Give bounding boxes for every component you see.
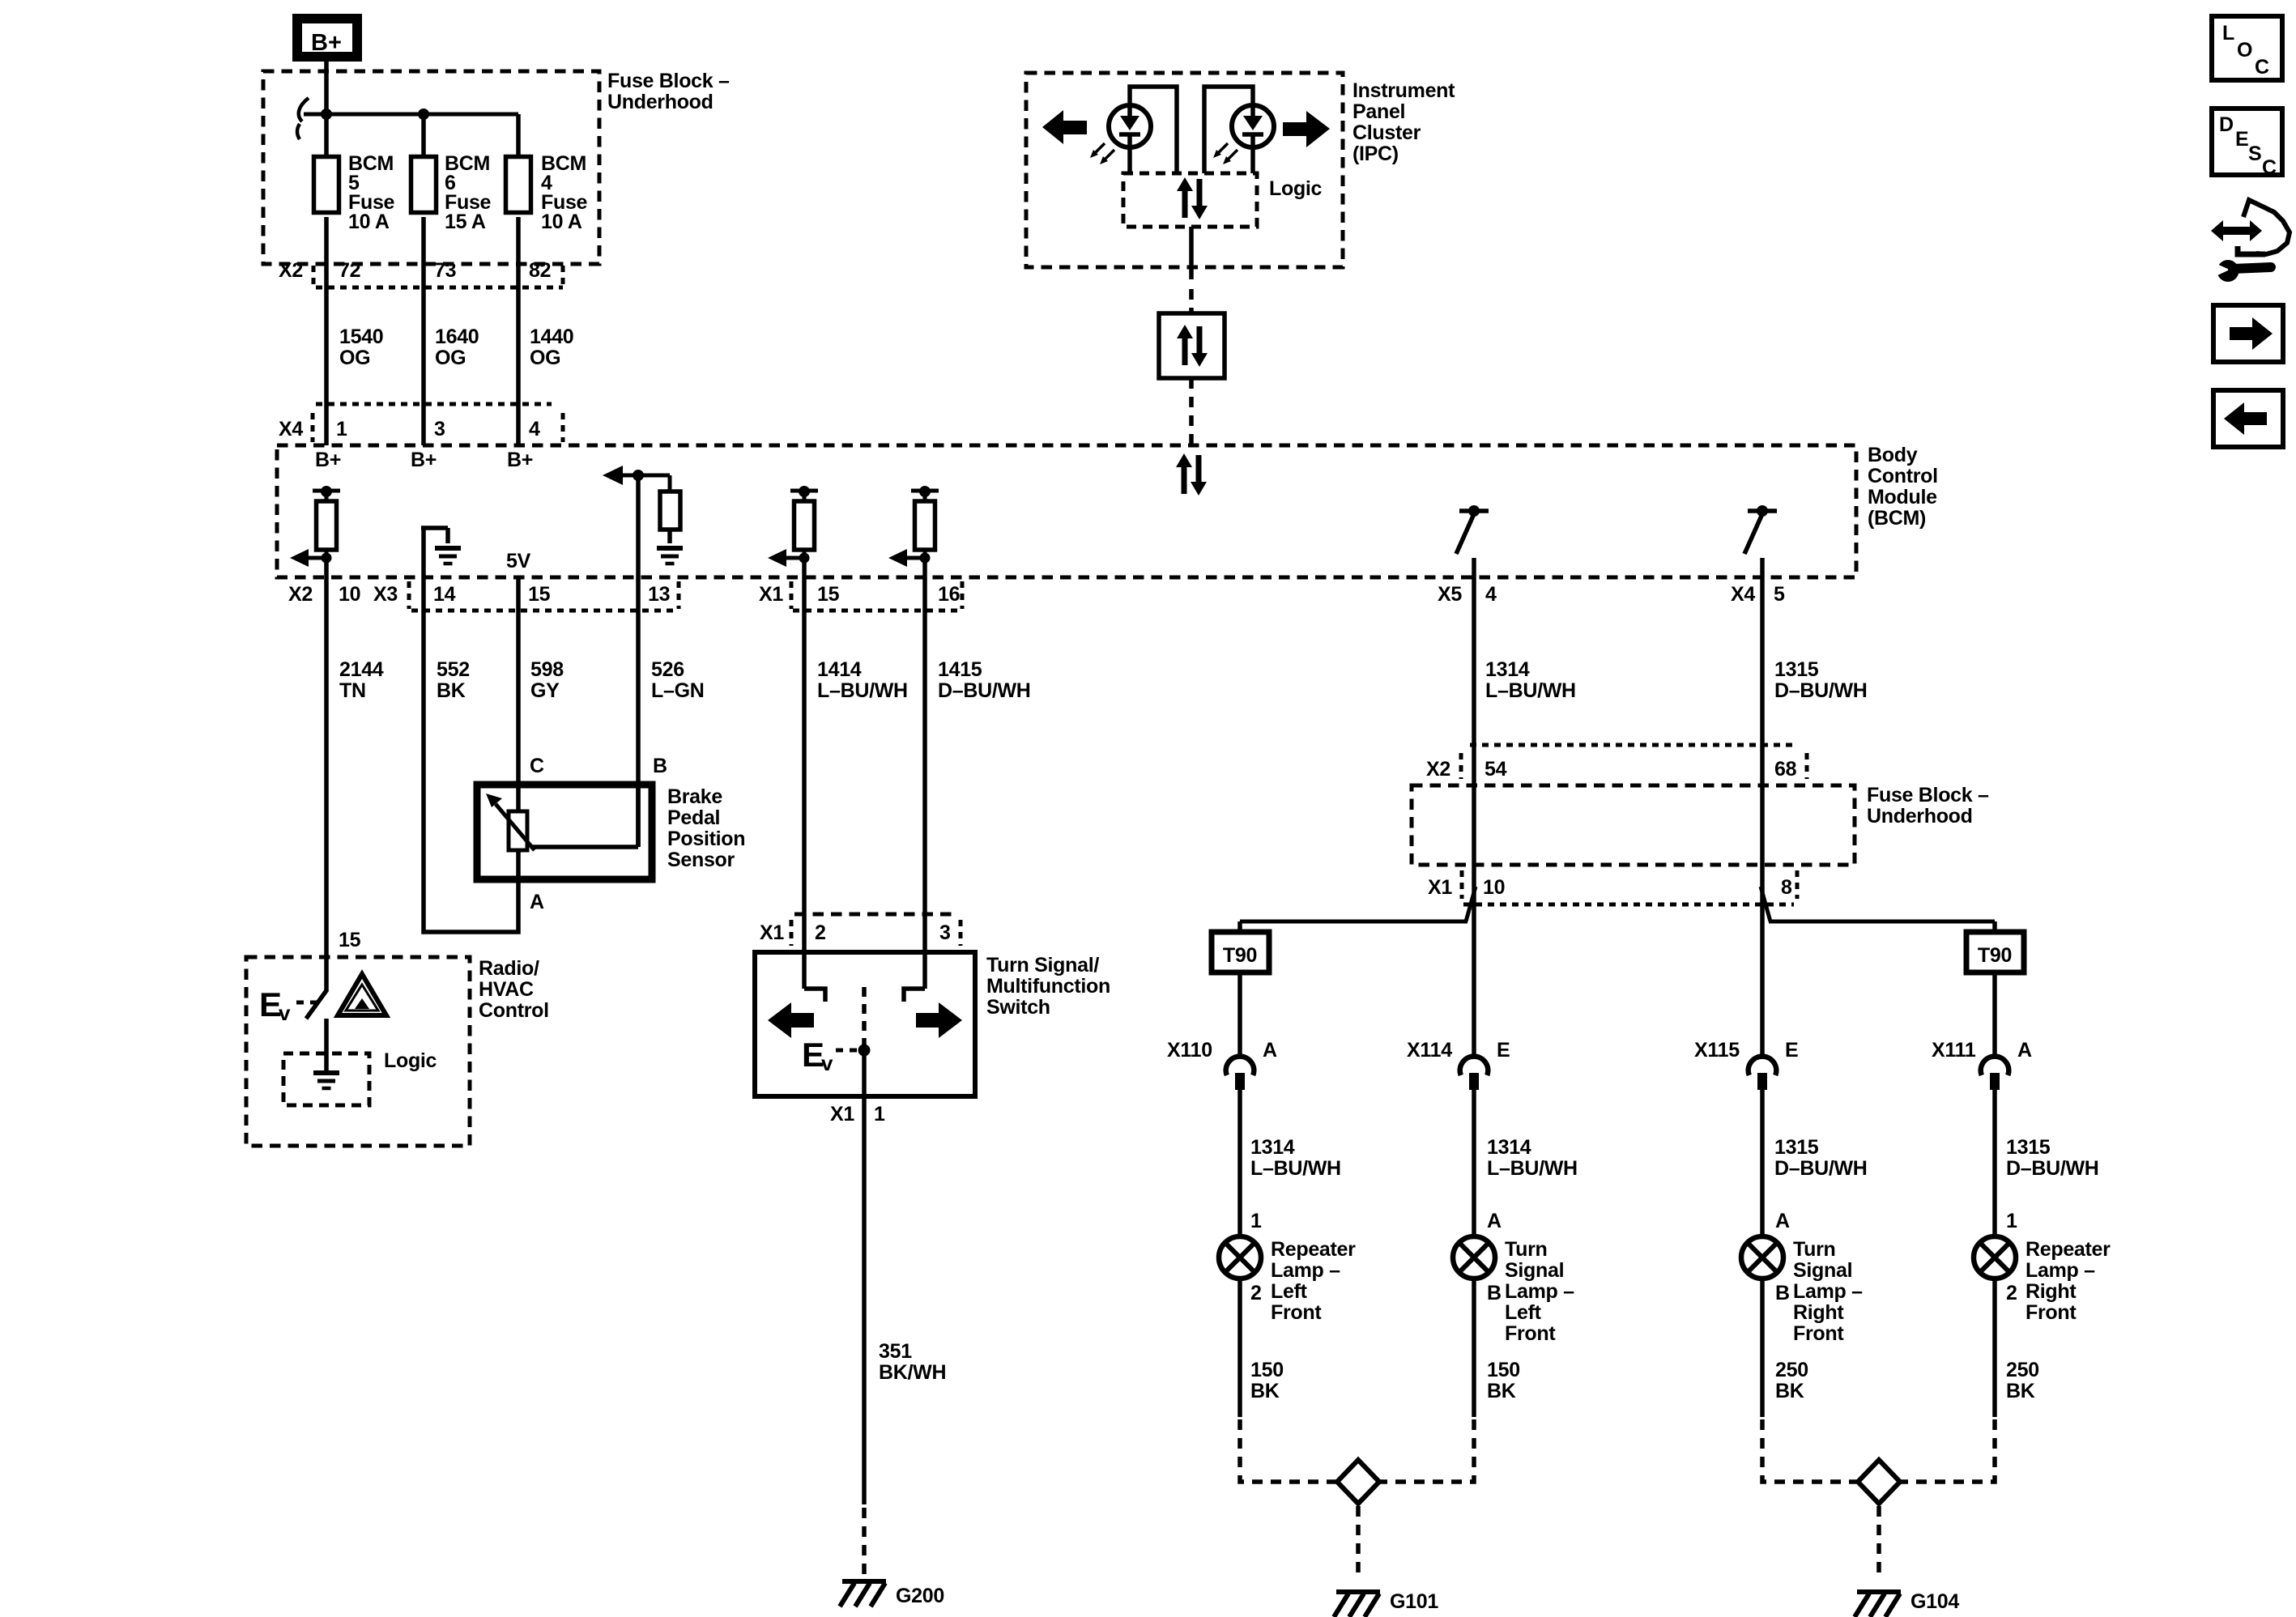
- svg-text:68: 68: [1774, 758, 1797, 781]
- svg-text:v: v: [279, 1001, 291, 1025]
- wire to logic ground radio: [324, 1019, 329, 1070]
- svg-text:X4: X4: [1731, 583, 1755, 606]
- svg-text:B+: B+: [411, 449, 437, 471]
- svg-text:E: E: [2235, 128, 2248, 151]
- lamp turn signal right front: [1741, 1236, 1783, 1279]
- wire 150 BK left: [1237, 1279, 1242, 1417]
- svg-text:1640: 1640: [435, 326, 479, 348]
- svg-text:(IPC): (IPC): [1352, 143, 1399, 165]
- icon box left arrow: [2213, 390, 2283, 447]
- svg-text:Instrument: Instrument: [1352, 79, 1455, 102]
- svg-text:150: 150: [1487, 1359, 1520, 1381]
- fuse block underhood 2 dashed box: [1412, 785, 1855, 865]
- svg-text:A: A: [530, 891, 544, 913]
- svg-text:OG: OG: [530, 347, 560, 369]
- svg-text:D–BU/WH: D–BU/WH: [1774, 679, 1868, 702]
- svg-text:A: A: [1775, 1210, 1790, 1232]
- svg-text:D–BU/WH: D–BU/WH: [1774, 1157, 1868, 1180]
- svg-text:BK: BK: [2006, 1380, 2035, 1402]
- svg-text:Underhood: Underhood: [607, 91, 714, 113]
- resistor internal BCM on 2144 output: [290, 486, 340, 567]
- connector X110: [1226, 1057, 1254, 1090]
- splice diamond left: [1337, 1460, 1379, 1504]
- icon hand wrench: [2211, 200, 2290, 282]
- svg-text:Fuse Block –: Fuse Block –: [607, 70, 730, 92]
- svg-text:150: 150: [1250, 1359, 1284, 1381]
- wire 1314 from BCM X5-4: [1472, 577, 1476, 1058]
- svg-text:15: 15: [339, 929, 361, 951]
- Ev symbol switch with dashed link and node: [802, 987, 871, 1075]
- svg-text:15: 15: [528, 583, 551, 606]
- svg-text:Lamp –: Lamp –: [1793, 1280, 1863, 1303]
- svg-text:Sensor: Sensor: [667, 849, 735, 871]
- internal ground BCM X3-14: [421, 528, 461, 577]
- svg-text:BK: BK: [1487, 1380, 1516, 1402]
- instrument panel cluster dashed box: [1026, 73, 1343, 267]
- branch wire to right T90: [1769, 920, 1995, 924]
- svg-text:2: 2: [815, 921, 826, 944]
- svg-text:351: 351: [879, 1340, 912, 1363]
- svg-text:BK: BK: [437, 679, 466, 702]
- connector row X2 54 68 fuse block: [1426, 745, 1807, 781]
- svg-text:C: C: [2262, 156, 2277, 179]
- svg-text:Right: Right: [2026, 1280, 2077, 1303]
- svg-text:BK/WH: BK/WH: [879, 1361, 946, 1384]
- logic dashed box radio: [283, 1053, 369, 1105]
- wire X110 to lamp: [1237, 1090, 1242, 1236]
- svg-text:X2: X2: [279, 259, 303, 282]
- big left turn arrow IPC: [1042, 110, 1087, 144]
- svg-text:Control: Control: [479, 999, 549, 1022]
- svg-text:2: 2: [2006, 1282, 2017, 1304]
- lamp repeater right front: [1974, 1236, 2016, 1279]
- svg-text:10: 10: [1483, 876, 1505, 899]
- svg-text:Front: Front: [1505, 1322, 1556, 1345]
- svg-text:X1: X1: [760, 921, 784, 944]
- svg-text:GY: GY: [530, 679, 560, 702]
- svg-text:L: L: [2222, 22, 2234, 45]
- radio HVAC control dashed box: [246, 957, 470, 1146]
- lamp repeater left front: [1219, 1236, 1261, 1279]
- wire 150 BK mid: [1472, 1279, 1476, 1417]
- svg-text:250: 250: [1775, 1359, 1808, 1381]
- wire fuse3 to BCM: [516, 217, 521, 445]
- dashed drop to G101: [1356, 1506, 1361, 1575]
- kink junction right branch: [1761, 887, 1770, 921]
- Ev symbol radio: [259, 985, 317, 1025]
- connector row X2-10 X3-14 15 13 X1-15 16 below BCM: [288, 581, 962, 611]
- svg-text:1: 1: [336, 418, 347, 440]
- junction node dot: [321, 109, 332, 120]
- wire 526 inside BCM: [636, 475, 641, 577]
- svg-text:54: 54: [1485, 758, 1507, 781]
- svg-text:A: A: [1487, 1210, 1502, 1232]
- svg-text:Repeater: Repeater: [1271, 1238, 1356, 1261]
- svg-text:C: C: [530, 755, 544, 777]
- branch wire to left T90: [1240, 920, 1467, 924]
- svg-text:1440: 1440: [530, 326, 573, 348]
- big right turn arrow IPC: [1283, 111, 1330, 147]
- turn signal multifunction switch box: [755, 952, 975, 1096]
- svg-text:10: 10: [339, 583, 360, 606]
- svg-text:Multifunction: Multifunction: [986, 975, 1110, 998]
- wire X110 branch upper: [1237, 972, 1242, 1058]
- svg-text:1314: 1314: [1485, 658, 1530, 681]
- svg-text:TN: TN: [339, 679, 366, 702]
- svg-text:X2: X2: [1426, 758, 1450, 781]
- svg-text:8: 8: [1781, 876, 1792, 899]
- svg-text:X2: X2: [288, 583, 313, 606]
- up down arrows inside IPC logic: [1177, 177, 1208, 219]
- wire 526 L-GN: [636, 577, 641, 847]
- hazard switch blade inside radio: [306, 989, 327, 1019]
- ground G104: [1855, 1592, 1901, 1617]
- serial data up-down arrows inside BCM: [1176, 453, 1207, 496]
- fuse block underhood dashed box: [263, 71, 599, 264]
- svg-text:A: A: [1263, 1039, 1277, 1062]
- switch internal BCM X5-4: [1456, 505, 1489, 577]
- svg-text:Turn: Turn: [1505, 1238, 1548, 1261]
- hazard triangle icon: [338, 974, 386, 1015]
- svg-text:X115: X115: [1694, 1039, 1740, 1062]
- svg-text:Lamp –: Lamp –: [2026, 1259, 2095, 1282]
- svg-text:Left: Left: [1505, 1301, 1542, 1324]
- svg-text:D: D: [2219, 113, 2234, 136]
- bus wire inside fuse block: [304, 113, 518, 117]
- svg-text:X1: X1: [830, 1103, 854, 1126]
- wire left LED to logic: [1127, 147, 1132, 173]
- svg-text:1: 1: [2006, 1210, 2017, 1232]
- svg-text:10 A: 10 A: [541, 211, 582, 233]
- connector row X1 10 8 fuse block: [1428, 870, 1797, 904]
- svg-text:X114: X114: [1407, 1039, 1452, 1062]
- wire 250 BK mid: [1760, 1279, 1765, 1417]
- svg-text:G200: G200: [896, 1585, 944, 1607]
- svg-text:B: B: [653, 755, 667, 777]
- svg-text:15 A: 15 A: [445, 211, 486, 233]
- svg-text:1: 1: [874, 1103, 885, 1126]
- lamp turn signal left front: [1453, 1236, 1495, 1279]
- svg-text:HVAC: HVAC: [479, 978, 534, 1001]
- wire 2144 TN: [324, 577, 329, 990]
- svg-text:3: 3: [434, 418, 445, 440]
- power feed B+: [297, 19, 357, 57]
- serial data interface box: [1159, 313, 1225, 378]
- body control module BCM dashed box: [277, 445, 1856, 577]
- dashed serial wire to BCM: [1189, 378, 1194, 445]
- svg-text:D–BU/WH: D–BU/WH: [938, 679, 1031, 702]
- wire 1414 inside BCM: [802, 558, 807, 577]
- connector row X1 2 3 switch: [760, 914, 961, 946]
- left turn arrow icon: [768, 1002, 814, 1038]
- right turn arrow icon: [916, 1002, 962, 1038]
- connector X115: [1749, 1057, 1777, 1090]
- wire 1315 from BCM X4-5: [1760, 577, 1765, 1058]
- svg-text:L–GN: L–GN: [651, 679, 704, 702]
- svg-text:B+: B+: [315, 449, 341, 471]
- junction node dot: [418, 109, 429, 120]
- wire X115 to lamp: [1760, 1090, 1765, 1236]
- wire 250 BK right: [1992, 1279, 1997, 1417]
- svg-text:4: 4: [1485, 583, 1497, 606]
- svg-text:L–BU/WH: L–BU/WH: [1250, 1157, 1341, 1180]
- svg-text:(BCM): (BCM): [1868, 507, 1926, 530]
- wire 1414 hook inside switch: [804, 989, 825, 1002]
- svg-text:Cluster: Cluster: [1352, 121, 1421, 144]
- svg-text:1314: 1314: [1250, 1136, 1295, 1159]
- svg-text:Front: Front: [1793, 1322, 1844, 1345]
- brake pedal position sensor box: [477, 785, 652, 879]
- svg-text:5: 5: [1774, 583, 1785, 606]
- svg-text:X111: X111: [1932, 1039, 1976, 1062]
- photon arrows right LED: [1213, 143, 1237, 164]
- svg-text:Module: Module: [1868, 486, 1937, 509]
- svg-text:Logic: Logic: [384, 1049, 437, 1072]
- svg-text:X3: X3: [373, 583, 398, 606]
- wire X114 to lamp: [1472, 1090, 1476, 1236]
- svg-text:73: 73: [434, 259, 456, 282]
- svg-text:Left: Left: [1271, 1280, 1308, 1303]
- svg-text:Front: Front: [2026, 1301, 2077, 1324]
- clip squiggle at bus end: [297, 98, 309, 139]
- svg-text:G101: G101: [1390, 1590, 1438, 1613]
- svg-text:BK: BK: [1250, 1380, 1280, 1402]
- wire 2144 inside BCM: [324, 558, 329, 577]
- svg-text:L–BU/WH: L–BU/WH: [1485, 679, 1576, 702]
- left LED wiring loop: [1130, 87, 1177, 173]
- svg-text:13: 13: [648, 583, 670, 606]
- svg-text:T90: T90: [1978, 944, 2012, 967]
- svg-text:1314: 1314: [1487, 1136, 1531, 1159]
- svg-text:D–BU/WH: D–BU/WH: [2006, 1157, 2099, 1180]
- wire X111 to lamp: [1992, 1090, 1997, 1236]
- svg-text:10 A: 10 A: [348, 211, 390, 233]
- icon box right arrow: [2213, 305, 2283, 362]
- svg-text:Signal: Signal: [1793, 1259, 1852, 1282]
- svg-text:Logic: Logic: [1269, 177, 1323, 200]
- svg-text:15: 15: [817, 583, 840, 606]
- svg-text:Position: Position: [667, 828, 745, 850]
- svg-text:1540: 1540: [339, 326, 383, 348]
- svg-text:OG: OG: [435, 347, 466, 369]
- dashed drop right pair: [1762, 1419, 1858, 1482]
- svg-text:Lamp –: Lamp –: [1505, 1280, 1574, 1303]
- svg-text:L–BU/WH: L–BU/WH: [1487, 1157, 1578, 1180]
- svg-text:2144: 2144: [339, 658, 384, 681]
- svg-text:BK: BK: [1775, 1380, 1804, 1402]
- svg-text:Lamp –: Lamp –: [1271, 1259, 1340, 1282]
- svg-text:L–BU/WH: L–BU/WH: [817, 679, 908, 702]
- svg-text:4: 4: [529, 418, 540, 440]
- dashed wire to G200: [862, 1508, 867, 1579]
- wire right LED to logic: [1250, 147, 1255, 173]
- svg-text:S: S: [2248, 143, 2261, 165]
- fuse BCM6 15A: [411, 152, 492, 233]
- svg-text:X5: X5: [1438, 583, 1462, 606]
- takeout T90 left: [1212, 932, 1269, 972]
- potentiometer inside sensor: [486, 785, 638, 879]
- wire 1415 D-BU/WH: [922, 577, 927, 989]
- svg-text:E: E: [1497, 1039, 1510, 1062]
- svg-text:G104: G104: [1910, 1590, 1959, 1613]
- svg-text:14: 14: [433, 583, 456, 606]
- svg-text:1415: 1415: [938, 658, 982, 681]
- ground G101: [1334, 1592, 1380, 1617]
- svg-text:1315: 1315: [2006, 1136, 2051, 1159]
- svg-text:Pedal: Pedal: [667, 806, 720, 829]
- svg-text:82: 82: [529, 259, 551, 282]
- svg-text:B: B: [1775, 1282, 1790, 1304]
- wire 351 from switch: [862, 1050, 867, 1504]
- svg-text:Fuse Block –: Fuse Block –: [1867, 784, 1989, 806]
- svg-text:16: 16: [938, 583, 960, 606]
- wire 1415 inside BCM: [922, 558, 927, 577]
- wire fuse1 to BCM: [324, 217, 329, 445]
- svg-text:552: 552: [437, 658, 470, 681]
- svg-text:Switch: Switch: [986, 996, 1050, 1019]
- splice diamond right: [1858, 1460, 1900, 1504]
- ground G200: [840, 1581, 886, 1606]
- svg-text:B+: B+: [311, 30, 342, 56]
- switch internal BCM X4-5: [1744, 505, 1777, 577]
- svg-text:T90: T90: [1223, 944, 1257, 967]
- connector X111: [1981, 1057, 2009, 1090]
- right LED wiring loop: [1204, 87, 1253, 173]
- svg-text:B: B: [1487, 1282, 1502, 1304]
- svg-text:1: 1: [1250, 1210, 1262, 1232]
- left LED indicator: [1109, 105, 1151, 147]
- icon box DESC: [2212, 109, 2282, 179]
- serial data wire below logic: [1189, 227, 1194, 279]
- svg-text:O: O: [2237, 39, 2252, 62]
- svg-text:X1: X1: [1428, 876, 1452, 899]
- dashed drop to G104: [1876, 1506, 1881, 1575]
- internal ground radio logic: [313, 1073, 339, 1088]
- logic dashed box IPC: [1123, 173, 1257, 227]
- svg-text:250: 250: [2006, 1359, 2039, 1381]
- svg-text:1315: 1315: [1774, 1136, 1819, 1159]
- wire 598 GY: [516, 577, 521, 811]
- svg-text:Brake: Brake: [667, 785, 722, 808]
- svg-text:Control: Control: [1868, 465, 1938, 487]
- svg-text:2: 2: [1250, 1282, 1262, 1304]
- svg-text:72: 72: [339, 259, 360, 282]
- dashed drop left pair: [1240, 1419, 1337, 1482]
- svg-text:1414: 1414: [817, 658, 862, 681]
- svg-text:3: 3: [939, 921, 951, 944]
- wire 1414 L-BU/WH: [802, 577, 807, 989]
- fuse BCM5 10A: [314, 152, 395, 233]
- svg-text:X4: X4: [279, 418, 303, 440]
- connector row X4 1 3 4: [279, 404, 563, 442]
- wire 1415 hook inside switch: [904, 989, 925, 1002]
- takeout T90 right: [1966, 932, 2024, 972]
- svg-text:Front: Front: [1271, 1301, 1322, 1324]
- connector row X2 72 73 82: [279, 259, 563, 287]
- kink junction left branch: [1466, 887, 1476, 921]
- svg-text:Turn: Turn: [1793, 1238, 1836, 1261]
- svg-text:X1: X1: [759, 583, 783, 606]
- wire 552 BK: [424, 577, 518, 932]
- wire from B+ into fuse block: [324, 62, 329, 157]
- svg-text:OG: OG: [339, 347, 370, 369]
- svg-text:Underhood: Underhood: [1867, 805, 1973, 828]
- svg-text:5V: 5V: [506, 550, 531, 572]
- svg-text:X110: X110: [1167, 1039, 1212, 1062]
- svg-text:1315: 1315: [1774, 658, 1819, 681]
- right LED indicator: [1232, 105, 1274, 147]
- internal circuit 526 L-GN : left arrow, node, resistor to ground: [603, 466, 683, 564]
- svg-text:Repeater: Repeater: [2026, 1238, 2111, 1261]
- resistor internal BCM on 1414 output: [768, 486, 818, 567]
- wire fuse2 to BCM: [421, 217, 426, 445]
- fuse BCM4 10A: [506, 152, 588, 233]
- svg-text:598: 598: [530, 658, 564, 681]
- svg-text:Radio/: Radio/: [479, 957, 539, 980]
- up down arrows inside serial box: [1177, 325, 1208, 367]
- svg-text:Panel: Panel: [1352, 100, 1405, 123]
- svg-text:Signal: Signal: [1505, 1259, 1564, 1282]
- svg-text:v: v: [821, 1051, 833, 1075]
- svg-text:Turn Signal/: Turn Signal/: [986, 954, 1099, 977]
- svg-text:B+: B+: [507, 449, 533, 471]
- resistor internal BCM on 1415 output: [888, 486, 939, 567]
- svg-text:C: C: [2255, 56, 2269, 79]
- svg-text:526: 526: [651, 658, 684, 681]
- connector X114: [1460, 1057, 1489, 1090]
- wire X111 branch upper: [1992, 972, 1997, 1058]
- svg-text:Body: Body: [1868, 444, 1918, 466]
- svg-text:E: E: [1785, 1039, 1798, 1062]
- icon box LOC: [2212, 16, 2282, 80]
- photon arrows left LED: [1090, 143, 1114, 164]
- svg-text:Right: Right: [1793, 1301, 1844, 1324]
- svg-text:A: A: [2017, 1039, 2032, 1062]
